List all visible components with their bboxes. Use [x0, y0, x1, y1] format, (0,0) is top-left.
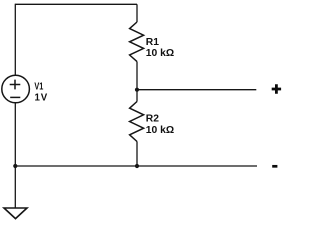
wire bottom rail: [15, 165, 257, 167]
resistor R1: [130, 22, 144, 62]
wire ground lead: [14, 166, 16, 208]
wire left vertical upper: [14, 4, 16, 76]
wire left vertical lower: [14, 103, 16, 166]
svg-text:V1: V1: [34, 82, 43, 93]
label R2 value: [146, 113, 174, 135]
wire middle vertical bottom: [136, 142, 138, 167]
svg-text:V: V: [41, 92, 48, 103]
svg-text:R2: R2: [146, 113, 159, 124]
label V1 value: [34, 82, 47, 104]
node junction bottom middle: [135, 164, 139, 168]
ground: [4, 208, 27, 219]
label R1 value: [146, 37, 174, 59]
wire output plus: [137, 89, 256, 91]
svg-text:10 kΩ: 10 kΩ: [146, 48, 174, 59]
voltage source V1: [2, 75, 30, 103]
wire middle vertical top: [136, 4, 138, 22]
node junction at R1/R2 tap: [135, 88, 139, 92]
node junction bottom left: [13, 164, 17, 168]
resistor R2: [130, 102, 144, 142]
svg-text:10 kΩ: 10 kΩ: [146, 125, 174, 136]
label output plus terminal: [272, 84, 281, 93]
wire top rail: [15, 3, 137, 5]
wire middle vertical between resistors: [136, 62, 138, 102]
svg-text:1: 1: [35, 92, 41, 103]
svg-text:R1: R1: [146, 37, 159, 48]
label output minus terminal: [272, 165, 277, 168]
